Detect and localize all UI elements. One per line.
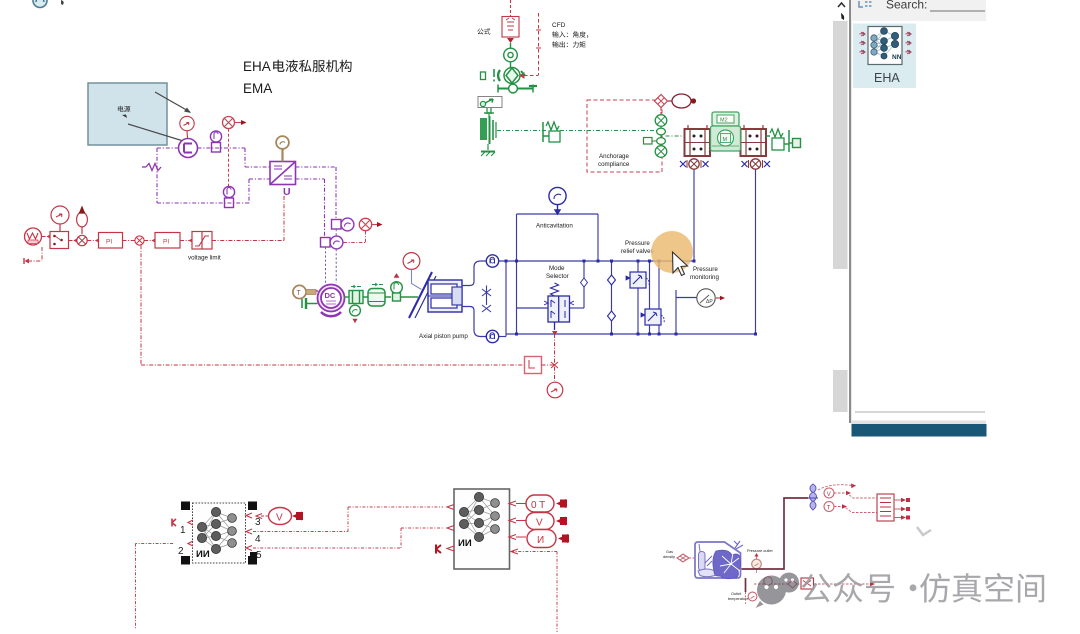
ground anchor — [481, 152, 495, 157]
spring right of cylinders — [766, 129, 789, 152]
svg-text:ΔP: ΔP — [706, 299, 713, 305]
ghost chevron — [917, 527, 931, 535]
sensor T circle — [824, 502, 834, 512]
sidebar divider — [849, 0, 851, 423]
svg-text:compliance: compliance — [598, 161, 630, 168]
friction oval — [668, 94, 691, 108]
duty-cycle oval source — [77, 207, 88, 234]
svg-text:monitoring: monitoring — [690, 274, 719, 281]
svg-text:M2: M2 — [720, 118, 728, 124]
svg-text:Anchorage: Anchorage — [599, 153, 629, 160]
NN1 port arrows — [188, 513, 252, 551]
svg-text:PI: PI — [163, 239, 169, 246]
window taskbar teal — [852, 424, 987, 437]
junction dots — [505, 260, 758, 336]
svg-text:Pressure: Pressure — [625, 240, 650, 247]
annotation arrow to gauge — [155, 92, 191, 113]
svg-text:V: V — [276, 513, 283, 524]
formula block f(x) — [502, 0, 519, 37]
V sensor oval — [526, 513, 554, 530]
svg-text:Search:: Search: — [886, 0, 927, 12]
warning mark — [493, 69, 495, 82]
watermark text — [802, 573, 1045, 603]
svg-text:U: U — [283, 186, 291, 198]
sidebar header — [851, 0, 986, 21]
wire arrowheads — [25, 235, 193, 264]
mode selector pilot arrow — [552, 331, 558, 336]
svg-text:Pressure: Pressure — [693, 266, 718, 273]
demux block — [50, 232, 69, 249]
NN1 K input mark — [172, 519, 176, 527]
green velocity wire to spring — [497, 130, 546, 132]
PI controller 1 — [99, 233, 123, 249]
anchorage compliance box — [587, 100, 662, 172]
pressure monitoring label — [690, 266, 719, 281]
gear inertia block — [363, 283, 391, 306]
relief valve 1 — [626, 272, 649, 288]
rpm gauge below — [547, 382, 563, 398]
svg-text:DC: DC — [325, 291, 336, 300]
svg-text:И: И — [537, 535, 544, 546]
svg-text:Outlet: Outlet — [731, 592, 742, 596]
outlet temperature sensor — [728, 592, 757, 604]
green link wires — [560, 131, 684, 142]
axial piston pump — [401, 272, 463, 318]
dc motor — [316, 285, 345, 317]
motor ground green — [302, 298, 318, 309]
jack mass element — [480, 112, 496, 150]
svg-text:T: T — [297, 290, 302, 297]
NN2 K input mark — [436, 545, 441, 554]
svg-text:V: V — [827, 492, 831, 498]
rotary joint node — [504, 43, 518, 68]
sum junction X — [77, 235, 87, 245]
pressure outlet sensor — [747, 549, 773, 573]
gauge stem to pump — [412, 270, 422, 290]
svg-text:Axial piston pump: Axial piston pump — [419, 333, 468, 340]
signal source W — [25, 228, 42, 245]
sensor drop wires to motor — [326, 229, 337, 283]
svg-text:CFD: CFD — [552, 22, 566, 29]
rotary speed sensor pair B — [321, 236, 343, 249]
gas density source — [663, 550, 694, 562]
T0 sensor oval — [526, 495, 554, 512]
NN2 left port arrows — [447, 505, 454, 552]
pilot check valve right — [749, 159, 763, 169]
N sensor oval — [527, 530, 556, 548]
svg-text:0 T: 0 T — [531, 500, 545, 511]
red sense wire down — [228, 129, 230, 186]
pump port lines — [462, 261, 487, 337]
power-supply comment box 电源 — [88, 83, 167, 145]
svg-text:EHA: EHA — [243, 59, 271, 74]
svg-text:Mode: Mode — [549, 265, 565, 272]
svg-text:ИИ: ИИ — [458, 538, 472, 549]
check diamonds column — [581, 275, 616, 321]
NN wiring red — [136, 507, 558, 632]
annotation arrow to battery — [128, 124, 193, 144]
svg-text:3: 3 — [255, 517, 261, 528]
control chain wires — [28, 196, 524, 365]
top-left toolbar fragment icons — [33, 0, 64, 8]
speed sensor R below coupling — [350, 305, 361, 322]
NN1 port numbers — [178, 517, 262, 561]
mode selector label — [546, 265, 569, 280]
svg-text:EMA: EMA — [243, 81, 272, 96]
svg-text:EHA: EHA — [874, 71, 900, 85]
swash angle gauge — [403, 253, 420, 270]
NN block 2 body — [454, 489, 510, 569]
gauge above demux — [51, 206, 69, 231]
NN2 right port arrows — [509, 501, 526, 554]
red wire torque to sensor — [344, 231, 366, 243]
voltage sensor P2 — [223, 186, 234, 207]
PI controller 2 — [155, 233, 180, 249]
thermal sensor above converter — [276, 136, 289, 161]
input port tick — [23, 258, 25, 264]
junction cross marks — [551, 362, 558, 368]
svg-text:Gas: Gas — [666, 550, 673, 554]
svg-text:4: 4 — [255, 534, 261, 545]
canvas scrollbar track — [833, 3, 848, 412]
pneumatic pipe maroon — [742, 498, 809, 592]
electrical bus wires purple — [157, 148, 336, 237]
svg-text:PI: PI — [106, 239, 112, 246]
flow sensor Q bottom — [486, 330, 498, 342]
fan propeller — [808, 484, 818, 510]
zero-watt source X top — [223, 117, 242, 129]
svg-text:Anticavitation: Anticavitation — [536, 223, 573, 230]
svg-text:M: M — [723, 137, 728, 143]
spring damper left — [543, 122, 560, 142]
torque source X right — [359, 218, 377, 230]
red feedback wire vertical CFD — [520, 13, 541, 78]
rotary speed sensor pair A — [332, 218, 354, 231]
relief valve 2 — [641, 309, 664, 325]
formula block output arrow — [507, 38, 514, 43]
check valve X upper — [482, 286, 491, 313]
velocity transducer V oval — [256, 508, 292, 525]
svg-text:2: 2 — [178, 546, 184, 557]
rotary load actuator — [498, 68, 525, 84]
gauge above battery — [180, 116, 194, 138]
branch junction diamond — [135, 236, 144, 245]
title text — [243, 59, 352, 96]
svg-text:voltage limit: voltage limit — [188, 255, 221, 262]
formula block label 公式 — [477, 28, 490, 34]
red dash wires to table block — [818, 485, 877, 513]
lookup table block — [877, 494, 910, 521]
delta-p gauge — [697, 289, 720, 307]
mode selector valve — [544, 283, 574, 330]
svg-text:V: V — [536, 518, 543, 529]
svg-text:ИИ: ИИ — [196, 549, 210, 560]
CFD note text — [552, 22, 566, 29]
current sensor P1 — [210, 131, 221, 152]
svg-text:Selector: Selector — [546, 273, 569, 280]
resistor on dc bus — [142, 164, 161, 171]
svg-text:NN: NN — [892, 54, 902, 61]
mouse cursor with highlight — [651, 231, 693, 276]
lever crank bar — [498, 84, 537, 93]
V oval bold arrow — [292, 512, 303, 521]
first order lag block L — [525, 357, 542, 374]
hydraulic cylinder right — [741, 125, 767, 156]
pilot check valve left — [687, 159, 701, 169]
linkage box with arrow — [478, 97, 502, 115]
shaft coupling — [345, 285, 364, 304]
temperature sensor T — [293, 285, 316, 298]
watermark wechat logo — [756, 573, 800, 609]
lag wire to mode selector — [542, 334, 555, 381]
sidebar EHA tile — [853, 24, 916, 89]
sensor V circle — [824, 488, 834, 498]
svg-text:Pressure outlet: Pressure outlet — [747, 549, 773, 553]
battery C — [179, 139, 198, 158]
converter block U — [270, 162, 296, 185]
pump speed sensor P — [391, 274, 403, 302]
svg-text:density: density — [663, 555, 675, 559]
small green port box — [481, 72, 486, 80]
svg-text:T: T — [827, 506, 831, 512]
pressure relief valves label — [621, 240, 654, 255]
NN block 1 body — [193, 503, 246, 563]
end mass green — [789, 139, 801, 148]
sidebar bottom line — [851, 412, 986, 424]
saturation block voltage limit — [192, 232, 212, 250]
force source diamond — [655, 95, 668, 115]
NN block 1 selection frame — [181, 502, 257, 565]
motor valve block green — [711, 112, 741, 151]
velocity port box — [644, 138, 653, 145]
aircraft cockpit icon — [695, 541, 743, 579]
svg-text:1: 1 — [180, 525, 186, 536]
svg-text:relief valves: relief valves — [621, 248, 654, 255]
hydraulic cylinder left — [685, 125, 711, 156]
svg-text:5: 5 — [256, 550, 262, 561]
mech junction column — [655, 115, 667, 158]
supply temperature chain — [754, 583, 870, 585]
hydraulic main bus lines — [499, 169, 756, 337]
flow sensor Q top — [486, 255, 498, 267]
anticavitation accumulator gauge — [549, 187, 566, 214]
